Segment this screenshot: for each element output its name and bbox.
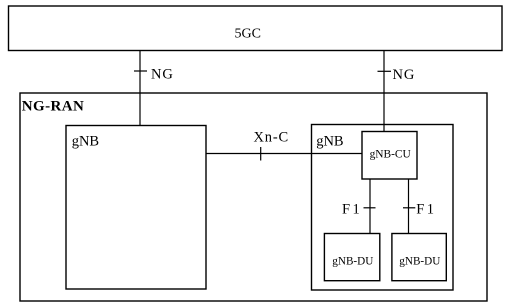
- tick NG right: [378, 70, 392, 72]
- label gNB-DU right: [399, 255, 440, 267]
- svg-text:gNB-CU: gNB-CU: [370, 148, 411, 160]
- box NG-RAN: [20, 93, 487, 301]
- tick F1 left: [364, 207, 376, 209]
- tick F1 right: [403, 207, 415, 209]
- box gNB-DU left: [324, 234, 379, 281]
- svg-text:NG: NG: [151, 67, 174, 83]
- svg-text:NG: NG: [393, 67, 416, 83]
- tick NG left: [134, 70, 147, 72]
- label 5GC: [235, 27, 261, 42]
- label gNB-DU left: [332, 255, 373, 267]
- label gNB-CU: [370, 148, 411, 160]
- svg-text:F1: F1: [342, 201, 362, 217]
- svg-text:F1: F1: [416, 201, 436, 217]
- svg-text:5GC: 5GC: [235, 27, 261, 42]
- label F1 left: [342, 201, 362, 217]
- label gNB right: [316, 133, 343, 149]
- svg-text:gNB-DU: gNB-DU: [332, 255, 373, 267]
- svg-text:gNB-DU: gNB-DU: [399, 255, 440, 267]
- box gNB-DU right: [392, 234, 446, 281]
- wire Xn-C: [206, 153, 362, 155]
- box 5GC: [9, 6, 503, 51]
- label NG-RAN: [22, 99, 84, 115]
- svg-text:Xn-C: Xn-C: [254, 130, 289, 146]
- box gNB right: [312, 125, 454, 291]
- label NG right: [393, 67, 416, 83]
- box gNB-CU: [362, 132, 417, 180]
- label NG left: [151, 67, 174, 83]
- svg-text:NG-RAN: NG-RAN: [22, 99, 84, 115]
- tick Xn-C: [260, 147, 262, 161]
- svg-text:gNB: gNB: [72, 133, 99, 149]
- box gNB left: [66, 126, 206, 290]
- svg-text:gNB: gNB: [316, 133, 343, 149]
- wire NG right: [383, 51, 385, 132]
- wire F1 right: [408, 179, 410, 234]
- label Xn-C: [254, 130, 289, 146]
- label gNB left: [72, 133, 99, 149]
- wire F1 left: [369, 179, 371, 234]
- label F1 right: [416, 201, 436, 217]
- wire NG left: [139, 51, 141, 126]
